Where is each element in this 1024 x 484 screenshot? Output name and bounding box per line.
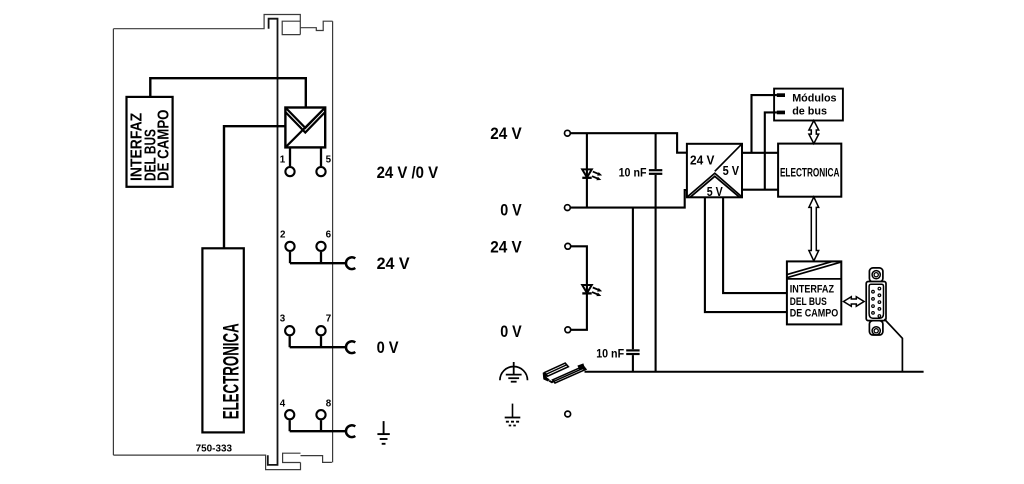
svg-text:750-333: 750-333 [196, 444, 233, 455]
svg-text:6: 6 [326, 229, 332, 240]
svg-text:DEL BUS: DEL BUS [790, 296, 827, 308]
svg-text:INTERFAZ: INTERFAZ [790, 283, 835, 295]
svg-text:5 V: 5 V [707, 185, 724, 199]
svg-text:10 nF: 10 nF [596, 346, 624, 360]
svg-text:0 V: 0 V [500, 201, 522, 220]
svg-text:3: 3 [280, 314, 286, 325]
svg-text:de bus: de bus [792, 105, 827, 117]
svg-text:DE CAMPO: DE CAMPO [156, 110, 173, 182]
svg-text:10 nF: 10 nF [619, 166, 647, 180]
svg-text:DE CAMPO: DE CAMPO [790, 308, 838, 320]
svg-text:ELECTRONICA: ELECTRONICA [218, 323, 243, 419]
svg-text:24 V: 24 V [490, 124, 522, 143]
svg-text:24 V /0 V: 24 V /0 V [377, 163, 439, 182]
svg-text:Módulos: Módulos [792, 92, 836, 104]
svg-text:0 V: 0 V [377, 338, 400, 357]
svg-text:5 V: 5 V [723, 164, 740, 178]
svg-text:7: 7 [326, 314, 332, 325]
svg-text:24 V: 24 V [377, 254, 411, 273]
svg-text:24 V: 24 V [690, 153, 715, 167]
svg-text:8: 8 [326, 398, 332, 409]
svg-text:ELECTRONICA: ELECTRONICA [780, 166, 840, 180]
svg-text:24 V: 24 V [490, 237, 522, 256]
svg-text:1: 1 [280, 155, 286, 166]
svg-text:4: 4 [280, 398, 286, 409]
svg-text:2: 2 [280, 229, 286, 240]
svg-text:0 V: 0 V [500, 322, 522, 341]
svg-text:5: 5 [326, 155, 332, 166]
